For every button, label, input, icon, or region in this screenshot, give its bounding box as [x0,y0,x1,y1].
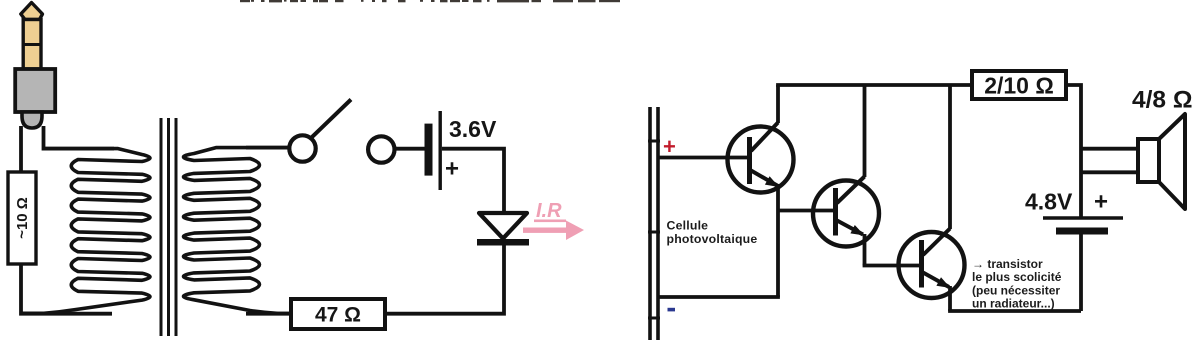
label Cellule photovoltaique [667,219,758,247]
svg-text:(peu nécessiter: (peu nécessiter [972,284,1060,298]
label - of cell [668,308,676,312]
diode D1 cathode bar [477,239,529,246]
wire branch to speaker bottom [1081,170,1138,174]
speaker LS1 cone [1159,114,1185,209]
wire resistor to speaker branch [1066,85,1081,217]
bottom rail cell minus to Q1 emitter [659,295,780,299]
svg-text:photovoltaique: photovoltaique [667,232,758,246]
svg-text:47 Ω: 47 Ω [315,304,361,327]
transistor Q2 base bar [833,188,838,236]
svg-text:4/8 Ω: 4/8 Ω [1132,87,1193,114]
wire secondary bottom to 47 ohm resistor [246,312,291,316]
wire Q2 collector to top rail [863,85,867,177]
svg-text:~10 Ω: ~10 Ω [14,197,31,239]
wire Q1 collector to top rail [776,85,780,123]
wire battery to diode top [442,149,504,213]
photovoltaic cell left electrode [648,107,652,340]
transistor Q1 body circle [728,127,794,193]
cell rung top [648,140,660,143]
svg-text:le plus scolicité: le plus scolicité [972,270,1062,284]
wire Q2 emitter to Q3 base [863,264,923,268]
svg-text:+: + [1094,189,1108,216]
audio jack J1 shaft rings [23,20,41,70]
audio jack J1 tip [21,3,43,20]
wire jack left pin down to R series box [19,126,23,172]
svg-text:3.6V: 3.6V [449,116,497,142]
transistor Q3 body circle [899,232,965,298]
svg-text:2/10 Ω: 2/10 Ω [984,73,1054,99]
battery BT1 positive plate [439,111,442,190]
label I.R [534,200,566,222]
wire Q2 emitter down [863,234,867,266]
photovoltaic cell right electrode [656,107,660,340]
wire terminal to battery BT1 [393,147,425,151]
transistor Q3 collector stroke [923,229,950,256]
note text transistor [972,257,1062,311]
transistor Q3 emitter stroke with arrow [923,273,951,289]
wire Q3 collector to top rail [948,85,952,229]
wire Q1 emitter to Q2 base [778,209,837,213]
transistor Q1 emitter stroke with arrow [751,171,779,188]
resistor ~10 ohm box [8,172,36,264]
wire diode down to 47 ohm loop [385,246,504,314]
svg-text:Cellule: Cellule [667,219,709,233]
wire Q3 emitter down to bottom right rail [948,286,952,311]
cell rung bottom [648,317,660,320]
transformer secondary winding L2 [184,148,292,314]
IR emission arrow [523,221,584,241]
speaker LS1 driver [1138,139,1159,182]
switch SW1 lever [311,100,351,139]
transformer core [161,118,176,336]
svg-text:+: + [663,134,676,159]
svg-text:un radiateur...): un radiateur...) [972,297,1055,311]
transistor Q1 collector stroke [751,123,778,152]
wire battery down to bottom rail [1079,235,1083,312]
transistor Q3 base bar [919,240,924,288]
battery BT2 negative plate [1056,228,1108,235]
transistor Q2 body circle [813,181,879,247]
transistor Q2 collector stroke [837,177,865,204]
wire branch to speaker top [1081,147,1138,151]
wire secondary top to switch [246,146,289,150]
top rail [776,83,972,87]
resistor 2/10 ohm box [972,71,1066,99]
diode D1 (IR LED) triangle [479,213,527,239]
cell rung middle [648,231,660,234]
resistor 47 ohm box [291,299,385,329]
wire resistor bottom to primary coil bottom [21,264,112,314]
svg-text:→ transistor: → transistor [972,257,1043,271]
cropped text remnants at top edge [240,0,620,2]
audio jack J1 sleeve [15,69,55,128]
transistor Q1 base bar [747,137,752,184]
wire cell + to Q1 base [659,156,748,160]
svg-text:I.R: I.R [536,200,562,222]
wire Q1 emitter down and to bottom-left rail [776,184,780,297]
battery BT1 negative plate [425,124,433,176]
wire jack right pin to primary coil top [44,126,115,149]
battery BT2 positive plate [1043,216,1123,220]
transformer primary winding L1 [21,149,150,314]
transistor Q2 emitter stroke with arrow [837,221,865,236]
svg-text:4.8V: 4.8V [1025,189,1073,215]
bottom rail Q3 to battery branch [948,309,1081,313]
switch SW1 contact circle [289,135,315,161]
svg-text:+: + [445,156,459,183]
switch open terminal circle [368,136,394,162]
